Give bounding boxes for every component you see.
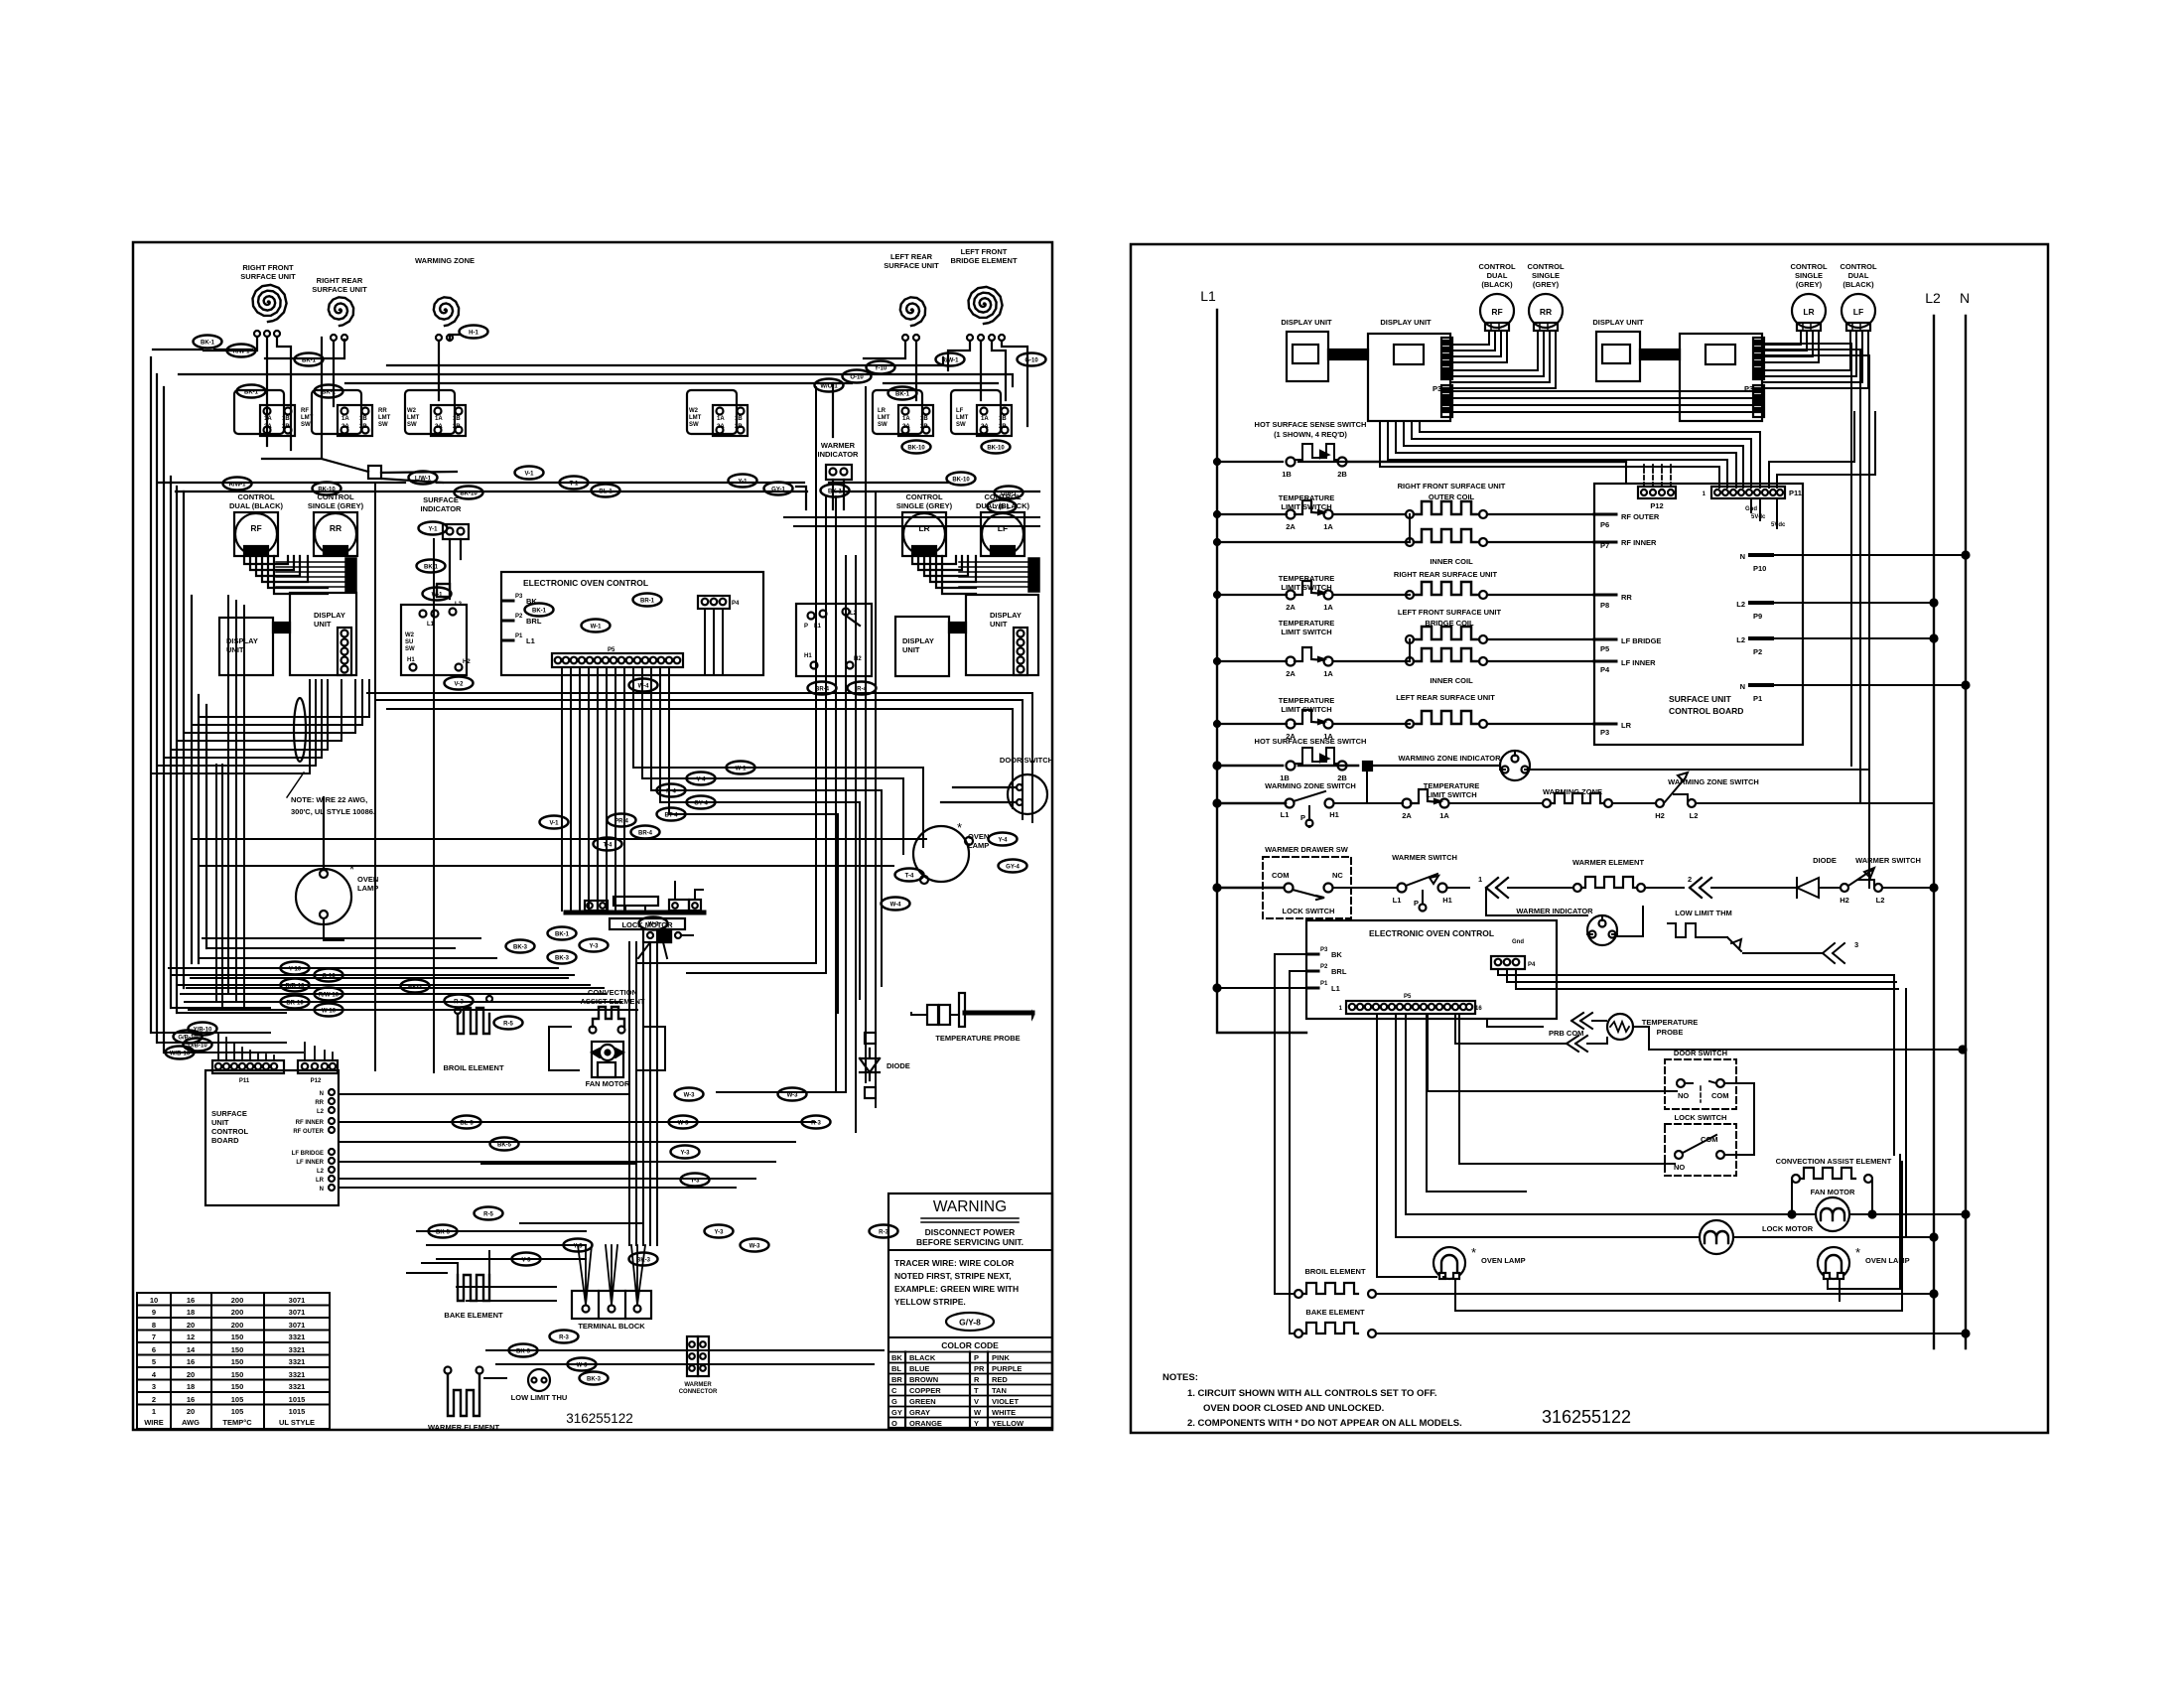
page frame bbox=[133, 242, 1052, 1430]
bake element bbox=[458, 1275, 489, 1301]
svg-text:P1: P1 bbox=[1753, 694, 1762, 703]
svg-text:(GREY): (GREY) bbox=[1533, 280, 1560, 289]
svg-text:O-10: O-10 bbox=[850, 375, 864, 381]
svg-text:18: 18 bbox=[187, 1308, 195, 1317]
wire label G-10 bbox=[1018, 353, 1046, 366]
diode (left page) bbox=[860, 1049, 880, 1080]
svg-text:10: 10 bbox=[150, 1296, 158, 1305]
svg-text:P11: P11 bbox=[239, 1078, 250, 1084]
svg-text:316255122: 316255122 bbox=[566, 1411, 633, 1426]
svg-text:1A: 1A bbox=[1439, 811, 1449, 820]
electronic oven control bbox=[501, 572, 763, 675]
svg-text:FAN MOTOR: FAN MOTOR bbox=[586, 1079, 630, 1088]
svg-text:16: 16 bbox=[1475, 1006, 1482, 1012]
svg-text:BK-1: BK-1 bbox=[555, 932, 570, 938]
svg-text:R/W-10: R/W-10 bbox=[319, 993, 340, 999]
svg-text:R-4: R-4 bbox=[666, 789, 676, 795]
oven lamps bbox=[1433, 1247, 1465, 1279]
svg-text:3321: 3321 bbox=[289, 1333, 306, 1341]
wire label BK-1 bbox=[525, 604, 554, 617]
svg-text:Y-3: Y-3 bbox=[690, 1179, 700, 1185]
svg-text:LF BRIDGE: LF BRIDGE bbox=[1621, 636, 1661, 645]
wire label Y-3 bbox=[671, 1146, 700, 1159]
svg-text:RED: RED bbox=[992, 1375, 1008, 1384]
temperature probe bbox=[1487, 1019, 1543, 1027]
svg-text:TEMPERATURE PROBE: TEMPERATURE PROBE bbox=[935, 1034, 1020, 1043]
svg-text:WARMER: WARMER bbox=[684, 1382, 712, 1388]
svg-text:20: 20 bbox=[187, 1407, 195, 1416]
svg-text:R-4: R-4 bbox=[857, 687, 867, 693]
svg-text:BK-5: BK-5 bbox=[436, 1230, 451, 1236]
svg-text:P11: P11 bbox=[1789, 489, 1802, 497]
svg-text:LMT: LMT bbox=[407, 415, 420, 421]
svg-text:L1: L1 bbox=[1200, 288, 1216, 304]
wire label BK-10 bbox=[313, 483, 341, 495]
limit switch W2 LMT SW (second) bbox=[687, 390, 748, 436]
wire label BK-3 bbox=[548, 951, 577, 964]
wire label Y-3 bbox=[580, 939, 609, 952]
svg-text:P1: P1 bbox=[515, 633, 523, 639]
svg-text:GRAY: GRAY bbox=[909, 1408, 930, 1417]
wire label Y-1 bbox=[729, 475, 757, 488]
svg-text:GY-4: GY-4 bbox=[1006, 865, 1020, 871]
wire label BK-5 bbox=[429, 1225, 458, 1238]
svg-text:LOCK SWITCH: LOCK SWITCH bbox=[1675, 1113, 1727, 1122]
wire label W-1 bbox=[582, 620, 611, 632]
wire label BK-10 bbox=[982, 441, 1011, 454]
svg-text:16: 16 bbox=[187, 1395, 195, 1404]
limit switch W2 LMT SW (warming zone) bbox=[405, 390, 466, 436]
svg-text:RIGHT FRONT SURFACE UNIT: RIGHT FRONT SURFACE UNIT bbox=[1398, 482, 1506, 491]
wire label R-5 bbox=[475, 1207, 503, 1220]
svg-text:L2: L2 bbox=[1690, 811, 1699, 820]
svg-text:SW: SW bbox=[407, 422, 417, 428]
svg-text:RF: RF bbox=[301, 408, 309, 414]
wire label R/W-10 bbox=[315, 988, 343, 1001]
svg-text:NO: NO bbox=[1678, 1091, 1689, 1100]
svg-text:GREEN: GREEN bbox=[909, 1397, 936, 1406]
svg-text:150: 150 bbox=[231, 1357, 244, 1366]
svg-text:WARMER SWITCH: WARMER SWITCH bbox=[1392, 853, 1457, 862]
wire label R-5 bbox=[494, 1017, 523, 1030]
svg-text:V-1: V-1 bbox=[549, 821, 559, 827]
wire label BR-1 bbox=[633, 594, 662, 607]
wire label BK-10 bbox=[947, 473, 976, 486]
svg-text:3321: 3321 bbox=[289, 1357, 306, 1366]
svg-text:VIOLET: VIOLET bbox=[992, 1397, 1020, 1406]
svg-text:105: 105 bbox=[231, 1395, 244, 1404]
svg-text:SURFACE UNIT: SURFACE UNIT bbox=[884, 261, 939, 270]
wire label Y-3 bbox=[681, 1174, 710, 1187]
wire label GY-4 bbox=[687, 796, 716, 809]
svg-text:BK-3: BK-3 bbox=[408, 985, 423, 991]
svg-text:L2: L2 bbox=[1736, 600, 1745, 609]
svg-text:LF INNER: LF INNER bbox=[296, 1160, 324, 1166]
wires between P3 connectors bbox=[1452, 391, 1753, 412]
svg-text:Y-10: Y-10 bbox=[875, 366, 887, 372]
svg-text:INNER COIL: INNER COIL bbox=[1430, 557, 1473, 566]
svg-text:WARMER ELEMENT: WARMER ELEMENT bbox=[1572, 858, 1645, 867]
wire label Y-1 bbox=[419, 522, 448, 535]
svg-text:DISPLAY UNIT: DISPLAY UNIT bbox=[1380, 318, 1432, 327]
svg-text:Y-1: Y-1 bbox=[738, 480, 748, 486]
svg-text:SW: SW bbox=[405, 646, 415, 652]
svg-text:BK-10: BK-10 bbox=[952, 478, 970, 484]
svg-text:CONTROL: CONTROL bbox=[1840, 262, 1876, 271]
svg-text:WARMING ZONE: WARMING ZONE bbox=[415, 256, 475, 265]
svg-text:1: 1 bbox=[1339, 1006, 1343, 1012]
svg-text:V-1: V-1 bbox=[524, 472, 534, 478]
svg-text:CONTROL: CONTROL bbox=[905, 492, 942, 501]
svg-text:R-5: R-5 bbox=[483, 1212, 493, 1218]
svg-text:SINGLE: SINGLE bbox=[1532, 271, 1560, 280]
wire label W-4 bbox=[629, 679, 658, 692]
svg-text:2A: 2A bbox=[1402, 811, 1412, 820]
svg-text:CONNECTOR: CONNECTOR bbox=[679, 1389, 718, 1395]
wire label W/O-1 bbox=[815, 379, 844, 392]
svg-text:BK: BK bbox=[1331, 950, 1342, 959]
svg-text:LR: LR bbox=[918, 523, 929, 533]
wire label BK-1 bbox=[295, 353, 324, 366]
svg-text:Y-1: Y-1 bbox=[428, 527, 438, 533]
svg-text:LF: LF bbox=[998, 523, 1008, 533]
svg-text:BAKE ELEMENT: BAKE ELEMENT bbox=[444, 1311, 503, 1320]
svg-text:LOW LIMIT THM: LOW LIMIT THM bbox=[1675, 909, 1731, 917]
svg-text:YELLOW STRIPE.: YELLOW STRIPE. bbox=[894, 1297, 966, 1307]
svg-text:PROBE: PROBE bbox=[1657, 1028, 1684, 1037]
wire label R/B-10 bbox=[281, 979, 310, 992]
control RF (dual black) bbox=[234, 512, 278, 556]
wire label W-1 bbox=[423, 588, 452, 601]
svg-text:G: G bbox=[891, 1397, 897, 1406]
svg-text:RIGHT REAR SURFACE UNIT: RIGHT REAR SURFACE UNIT bbox=[1394, 570, 1498, 579]
svg-text:TAN: TAN bbox=[992, 1386, 1007, 1395]
svg-text:W2: W2 bbox=[407, 408, 417, 414]
svg-text:P5: P5 bbox=[608, 647, 615, 653]
svg-text:W-4: W-4 bbox=[638, 684, 650, 690]
svg-text:16: 16 bbox=[187, 1357, 195, 1366]
svg-text:OVEN: OVEN bbox=[968, 832, 989, 841]
svg-text:P: P bbox=[1414, 899, 1419, 908]
ribbon cables (hatched) bbox=[276, 558, 356, 592]
svg-text:W-1: W-1 bbox=[432, 593, 444, 599]
svg-text:RIGHT REAR: RIGHT REAR bbox=[317, 276, 363, 285]
wire label R/W-1 bbox=[223, 478, 252, 491]
svg-text:BK-1: BK-1 bbox=[895, 392, 910, 398]
svg-text:W2: W2 bbox=[405, 632, 415, 638]
svg-text:N: N bbox=[320, 1091, 324, 1097]
terminal block bbox=[572, 1291, 651, 1319]
svg-text:3321: 3321 bbox=[289, 1382, 306, 1391]
svg-text:RF OUTER: RF OUTER bbox=[1621, 512, 1660, 521]
svg-text:O: O bbox=[891, 1419, 897, 1428]
svg-text:PR: PR bbox=[974, 1364, 985, 1373]
svg-text:CONTROL BOARD: CONTROL BOARD bbox=[1669, 706, 1743, 716]
display units bbox=[219, 618, 273, 675]
P11 connector bbox=[1711, 487, 1785, 498]
wire label W-1 bbox=[727, 762, 755, 774]
svg-text:INDICATOR: INDICATOR bbox=[818, 450, 860, 459]
svg-text:COM: COM bbox=[1272, 871, 1290, 880]
svg-text:SU: SU bbox=[405, 639, 413, 645]
svg-text:1: 1 bbox=[1703, 491, 1706, 497]
wire label W-10 bbox=[315, 1004, 343, 1017]
svg-text:2B: 2B bbox=[1337, 470, 1347, 479]
P12 connector bbox=[1638, 487, 1676, 498]
svg-text:*: * bbox=[349, 862, 354, 877]
wire label W-3 bbox=[741, 1239, 769, 1252]
cable loop ellipse bbox=[294, 698, 306, 762]
svg-text:P4: P4 bbox=[1528, 962, 1536, 968]
svg-text:P6: P6 bbox=[1600, 520, 1609, 529]
svg-text:P12: P12 bbox=[311, 1078, 322, 1084]
svg-text:BK-3: BK-3 bbox=[516, 1349, 531, 1355]
svg-text:BEFORE SERVICING UNIT.: BEFORE SERVICING UNIT. bbox=[916, 1237, 1024, 1247]
svg-text:BROIL ELEMENT: BROIL ELEMENT bbox=[443, 1063, 504, 1072]
svg-text:N: N bbox=[320, 1187, 324, 1193]
svg-text:T: T bbox=[974, 1386, 979, 1395]
svg-text:7: 7 bbox=[152, 1333, 156, 1341]
svg-text:LEFT REAR SURFACE UNIT: LEFT REAR SURFACE UNIT bbox=[1396, 693, 1495, 702]
wires RF/RR to DU2 connector bbox=[1452, 331, 1556, 388]
svg-text:H-1: H-1 bbox=[469, 331, 478, 337]
wire label BK-1 bbox=[548, 927, 577, 940]
svg-text:V: V bbox=[974, 1397, 979, 1406]
svg-text:ELECTRONIC OVEN CONTROL: ELECTRONIC OVEN CONTROL bbox=[1369, 928, 1494, 938]
svg-text:300'C, UL STYLE 10086.: 300'C, UL STYLE 10086. bbox=[291, 807, 375, 816]
connector from WZ indicator down to row bbox=[1309, 771, 1367, 827]
wire label BK-5 bbox=[490, 1138, 519, 1151]
svg-text:Y-3: Y-3 bbox=[714, 1230, 724, 1236]
wire label T-4 bbox=[895, 869, 924, 882]
svg-text:Y-4: Y-4 bbox=[998, 838, 1008, 844]
svg-text:BK-3: BK-3 bbox=[555, 956, 570, 962]
svg-text:2A: 2A bbox=[1286, 603, 1296, 612]
right trunk verticals bbox=[637, 387, 876, 1132]
svg-text:W-3: W-3 bbox=[684, 1093, 696, 1099]
wire label BR-4 bbox=[808, 682, 837, 695]
svg-text:R: R bbox=[974, 1375, 980, 1384]
svg-text:L2: L2 bbox=[317, 1169, 325, 1175]
wire label R-4 bbox=[657, 784, 686, 797]
svg-text:P5: P5 bbox=[1404, 994, 1412, 1000]
svg-text:BK-3: BK-3 bbox=[636, 1258, 651, 1264]
svg-text:HOT SURFACE SENSE SWITCH: HOT SURFACE SENSE SWITCH bbox=[1255, 737, 1367, 746]
svg-text:BK-10: BK-10 bbox=[318, 488, 336, 493]
svg-text:1: 1 bbox=[152, 1407, 156, 1416]
svg-text:DOOR SWITCH: DOOR SWITCH bbox=[1674, 1049, 1727, 1057]
svg-text:DIODE: DIODE bbox=[1813, 856, 1837, 865]
svg-text:LR: LR bbox=[316, 1178, 325, 1184]
svg-text:H1: H1 bbox=[1329, 810, 1339, 819]
broil element bbox=[458, 1008, 489, 1034]
svg-text:N: N bbox=[1740, 552, 1745, 561]
svg-text:R/B-10: R/B-10 bbox=[285, 984, 305, 990]
lock motor assembly bbox=[566, 911, 704, 915]
svg-text:LOCK SWITCH: LOCK SWITCH bbox=[1283, 907, 1335, 915]
svg-text:Gnd: Gnd bbox=[1512, 939, 1524, 945]
svg-text:200: 200 bbox=[231, 1321, 244, 1330]
display unit 4 (big) bbox=[1680, 334, 1762, 421]
svg-text:1015: 1015 bbox=[289, 1407, 306, 1416]
svg-text:1: 1 bbox=[1478, 875, 1482, 884]
wire label BL-5 bbox=[453, 1116, 481, 1129]
svg-text:COPPER: COPPER bbox=[909, 1386, 941, 1395]
svg-text:R-3: R-3 bbox=[879, 1230, 888, 1236]
svg-text:COM: COM bbox=[1711, 1091, 1729, 1100]
wires into P11 from above bbox=[218, 1033, 333, 1060]
svg-text:BK-10: BK-10 bbox=[987, 446, 1005, 452]
svg-text:WARMER INDICATOR: WARMER INDICATOR bbox=[1516, 907, 1593, 915]
svg-text:UNIT: UNIT bbox=[314, 620, 332, 629]
svg-text:WARMER: WARMER bbox=[821, 441, 856, 450]
control LF (dual black) bbox=[981, 512, 1024, 556]
svg-text:NOTE: WIRE 22 AWG,: NOTE: WIRE 22 AWG, bbox=[291, 795, 367, 804]
svg-text:COLOR CODE: COLOR CODE bbox=[941, 1340, 999, 1350]
svg-text:R/W-1: R/W-1 bbox=[229, 483, 247, 489]
svg-text:Y-10: Y-10 bbox=[289, 967, 302, 973]
wire label T-1 bbox=[560, 477, 589, 490]
svg-text:Gnd: Gnd bbox=[1745, 506, 1757, 512]
svg-text:BL-1: BL-1 bbox=[599, 490, 613, 495]
wire label V-4 bbox=[687, 772, 716, 785]
svg-text:P: P bbox=[804, 624, 808, 630]
svg-text:SINGLE: SINGLE bbox=[1795, 271, 1823, 280]
svg-text:DIODE: DIODE bbox=[887, 1061, 910, 1070]
svg-text:Y-3: Y-3 bbox=[680, 1151, 690, 1157]
svg-text:RR: RR bbox=[315, 1100, 324, 1106]
wire label W-3 bbox=[675, 1088, 704, 1101]
wire label GY-4 bbox=[999, 860, 1027, 873]
svg-text:DISPLAY: DISPLAY bbox=[902, 636, 934, 645]
svg-text:CONTROL: CONTROL bbox=[1478, 262, 1515, 271]
wire label BT-4 bbox=[657, 808, 686, 821]
svg-text:LEFT REAR: LEFT REAR bbox=[890, 252, 933, 261]
svg-text:W: W bbox=[974, 1408, 982, 1417]
wire label BR-10 bbox=[281, 996, 310, 1009]
svg-text:AWG: AWG bbox=[182, 1418, 200, 1427]
wire label BK-3 bbox=[509, 1344, 538, 1357]
svg-text:3: 3 bbox=[152, 1382, 156, 1391]
wire label BK-3 bbox=[506, 940, 535, 953]
svg-text:TEMP°C: TEMP°C bbox=[222, 1418, 252, 1427]
control LR (single grey) bbox=[902, 512, 946, 556]
svg-text:YELLOW: YELLOW bbox=[992, 1419, 1024, 1428]
wire label BK-10 bbox=[455, 487, 483, 499]
svg-text:L1: L1 bbox=[526, 636, 535, 645]
svg-text:LR: LR bbox=[878, 408, 887, 414]
svg-text:OUTER COIL: OUTER COIL bbox=[1429, 492, 1475, 501]
svg-text:1. CIRCUIT SHOWN WITH ALL CO: 1. CIRCUIT SHOWN WITH ALL CONTROLS SET T… bbox=[1187, 1388, 1437, 1399]
svg-text:WARMER SWITCH: WARMER SWITCH bbox=[1855, 856, 1921, 865]
svg-text:W-10: W-10 bbox=[322, 1009, 337, 1015]
svg-text:R-3: R-3 bbox=[454, 1000, 464, 1006]
svg-text:R-3: R-3 bbox=[559, 1335, 569, 1341]
wire label R/W-1 bbox=[227, 345, 256, 357]
svg-text:BK-5: BK-5 bbox=[497, 1143, 512, 1149]
svg-text:BAKE ELEMENT: BAKE ELEMENT bbox=[1305, 1308, 1365, 1317]
svg-text:3071: 3071 bbox=[289, 1296, 306, 1305]
svg-text:5Vdc: 5Vdc bbox=[1771, 522, 1786, 528]
svg-text:P3: P3 bbox=[1320, 947, 1328, 953]
svg-text:WARMER ELEMENT: WARMER ELEMENT bbox=[428, 1423, 500, 1432]
svg-text:BK-1: BK-1 bbox=[424, 565, 439, 571]
temperature probe (left page) bbox=[927, 1005, 938, 1025]
svg-text:Y-3: Y-3 bbox=[573, 1244, 583, 1250]
svg-text:DISCONNECT POWER: DISCONNECT POWER bbox=[925, 1227, 1016, 1237]
svg-text:L2: L2 bbox=[1925, 290, 1941, 306]
wire label O-10 bbox=[315, 969, 343, 982]
svg-text:LEFT FRONT: LEFT FRONT bbox=[961, 247, 1008, 256]
svg-text:W-3: W-3 bbox=[648, 922, 660, 928]
svg-text:P10: P10 bbox=[1753, 564, 1766, 573]
wire label V-1 bbox=[515, 467, 544, 480]
oven lamp right bbox=[913, 826, 969, 882]
svg-text:4: 4 bbox=[152, 1370, 157, 1379]
svg-text:H2: H2 bbox=[1840, 896, 1849, 905]
svg-text:6: 6 bbox=[152, 1345, 156, 1354]
wire label BK-3 bbox=[401, 980, 430, 993]
svg-text:P2: P2 bbox=[1320, 964, 1328, 970]
svg-text:LR: LR bbox=[1621, 721, 1632, 730]
wire label R-3 bbox=[870, 1225, 898, 1238]
svg-text:2: 2 bbox=[152, 1395, 156, 1404]
svg-text:LF INNER: LF INNER bbox=[1621, 658, 1656, 667]
wire label W-3 bbox=[568, 1358, 597, 1371]
svg-text:SW: SW bbox=[956, 422, 966, 428]
burner RIGHT REAR SURFACE UNIT bbox=[329, 297, 353, 326]
svg-text:WARNING: WARNING bbox=[933, 1198, 1007, 1215]
SURFACE UNIT CONTROL BOARD bbox=[1594, 484, 1803, 745]
svg-text:T-1: T-1 bbox=[570, 482, 579, 488]
svg-text:5: 5 bbox=[152, 1357, 156, 1366]
svg-text:P3: P3 bbox=[1600, 728, 1609, 737]
horizontal bus lines, upper bbox=[153, 349, 252, 351]
svg-text:R-3: R-3 bbox=[811, 1121, 821, 1127]
oven lamp left bbox=[296, 869, 351, 924]
wire label BK-1 bbox=[888, 387, 917, 400]
SI switch box bbox=[401, 605, 467, 675]
svg-text:V-3: V-3 bbox=[521, 1258, 531, 1264]
row: RF inner bbox=[1406, 529, 1487, 546]
svg-text:WHITE: WHITE bbox=[992, 1408, 1016, 1417]
svg-text:WARMER DRAWER SW: WARMER DRAWER SW bbox=[1265, 845, 1349, 854]
svg-text:DISPLAY: DISPLAY bbox=[314, 611, 345, 620]
svg-text:L1: L1 bbox=[1281, 810, 1290, 819]
svg-text:RR: RR bbox=[378, 408, 387, 414]
svg-text:O/B-1: O/B-1 bbox=[1001, 491, 1018, 497]
svg-text:WARMING ZONE SWITCH: WARMING ZONE SWITCH bbox=[1265, 781, 1356, 790]
svg-text:BT-4: BT-4 bbox=[664, 813, 678, 819]
warning box bbox=[888, 1193, 1052, 1428]
svg-text:BRL: BRL bbox=[1331, 967, 1347, 976]
lock switch box bbox=[1665, 1124, 1736, 1176]
svg-text:BRIDGE ELEMENT: BRIDGE ELEMENT bbox=[950, 256, 1018, 265]
svg-text:105: 105 bbox=[231, 1407, 244, 1416]
svg-text:SURFACE UNIT: SURFACE UNIT bbox=[240, 272, 296, 281]
wire label Y/B-10 bbox=[189, 1023, 217, 1036]
svg-text:LMT: LMT bbox=[378, 415, 391, 421]
svg-text:BROIL ELEMENT: BROIL ELEMENT bbox=[1304, 1267, 1366, 1276]
wire label V-2 bbox=[445, 677, 474, 690]
wire label Y-4 bbox=[989, 833, 1018, 846]
svg-text:TEMPERATURE: TEMPERATURE bbox=[1279, 696, 1335, 705]
svg-text:(BLACK): (BLACK) bbox=[1481, 280, 1513, 289]
wire gauge table bbox=[137, 1293, 330, 1429]
svg-text:BRL: BRL bbox=[526, 617, 542, 626]
svg-text:20: 20 bbox=[187, 1370, 195, 1379]
limit switch LF LMT SW bbox=[951, 390, 1012, 436]
